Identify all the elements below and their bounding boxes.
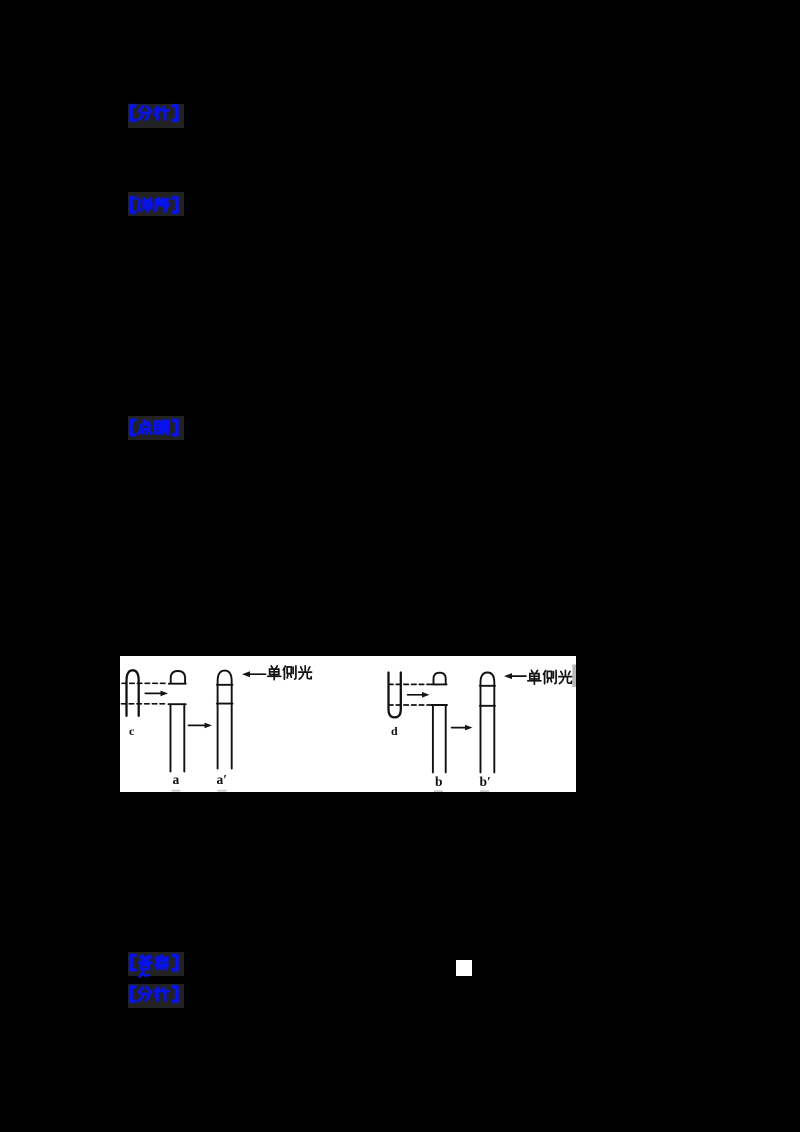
detached tip c (inverted U) [126,670,138,716]
upper dashed transfer line (right group) [388,683,440,685]
tag 【点睛】 (key-point marker) [128,416,184,440]
block junction line on a' [216,702,232,704]
tip junction line on a' [216,683,232,685]
arrow a to a' [188,722,212,728]
svg-text:a′: a′ [216,772,227,787]
coleoptile a' with replaced tip [217,670,231,768]
severed tip block above b [432,672,447,684]
tag 【答案】 (answer marker) [128,952,184,976]
block junction line on b' [479,704,494,706]
arrow d to b (rightwards) [407,692,429,698]
svg-text:b: b [435,774,443,789]
gray sliver at right edge of panel [572,664,576,687]
unilateral light arrow (right group) [504,673,526,679]
experiment diagram figure (white panel) [120,656,577,792]
lower dashed transfer line (right group) [388,704,439,706]
lower dashed transfer line (left group) [121,702,167,704]
tip junction line on b' [479,684,494,686]
text 单侧光 (right group) [527,670,571,684]
tag 【详解】 (detailed-solution marker) [128,192,184,216]
svg-text:c: c [129,724,135,738]
unilateral light arrow (left group) [242,671,266,677]
tag 【分析】 (second analysis marker) [128,984,184,1008]
decapitated coleoptile b [431,705,446,772]
text 单侧光 (left group) [267,665,311,679]
severed tip block above a [168,671,185,684]
gray mark under label a' [217,789,226,791]
decapitated coleoptile a [168,704,185,771]
gray mark under label a [171,789,180,791]
upper dashed transfer line (left group) [122,682,168,684]
svg-text:d: d [391,724,398,738]
arrow b to b' [451,724,472,730]
svg-text:a: a [172,772,179,787]
gray mark under label b' [480,790,489,792]
svg-text:b′: b′ [479,774,490,789]
coleoptile b' with replaced tip [480,672,494,772]
inverted tip d (U open at top) [388,672,400,717]
arrow c to a (rightwards) [145,690,168,696]
gray mark under label b [434,790,443,792]
tag 【分析】 (first analysis marker) [128,104,184,128]
small white square (answer blank) [456,960,472,976]
